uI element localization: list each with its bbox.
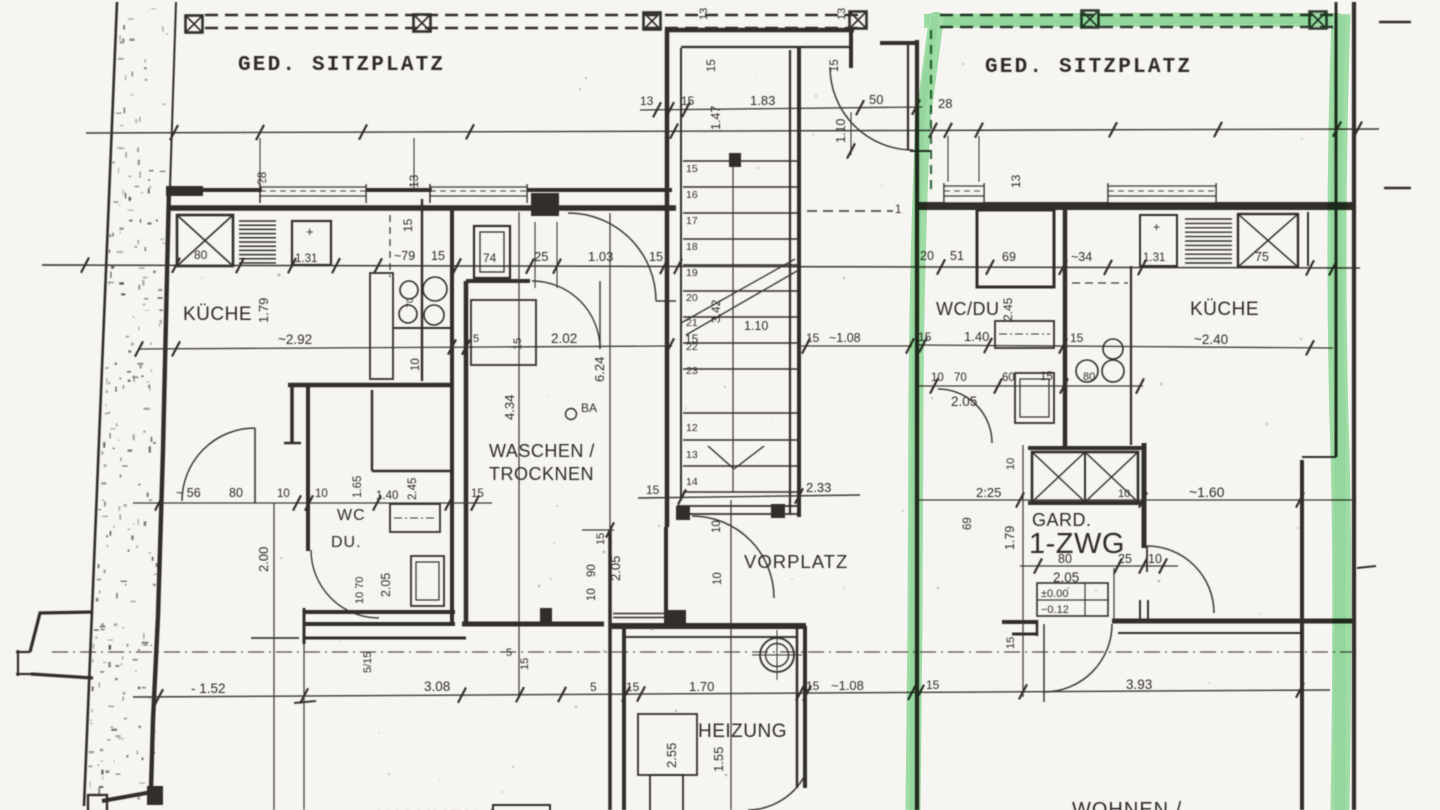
kitchen shaft crossed box (177, 215, 233, 266)
svg-text:3.93: 3.93 (1126, 677, 1152, 692)
pergola post 3 (644, 13, 661, 30)
wc-right door arc (938, 389, 992, 443)
entry door arc right apartment (830, 67, 913, 150)
svg-text:1.31: 1.31 (295, 253, 317, 265)
svg-text:13: 13 (686, 449, 698, 461)
wall end block left of wohnen door (1002, 620, 1038, 624)
stair shaft top wall inner (681, 46, 849, 48)
entry wall stub right of shaft (849, 30, 853, 68)
kitchen sink box with 1.31 (292, 221, 331, 265)
svg-text:15: 15 (649, 250, 663, 264)
gard top wall (1028, 446, 1143, 450)
svg-text:2.05: 2.05 (379, 573, 393, 597)
building west wall thick slanted (151, 188, 169, 789)
green highlight horizontal top right (924, 20, 1340, 21)
svg-text:17: 17 (686, 215, 698, 227)
kitchen-right counter edge (1130, 266, 1132, 445)
svg-text:15: 15 (595, 533, 607, 545)
svg-text:WC/DU: WC/DU (936, 299, 1000, 319)
vertical dim line x610 (609, 213, 611, 697)
gard right wall (1142, 443, 1147, 548)
svg-text:5: 5 (506, 647, 512, 659)
svg-text:14: 14 (686, 476, 698, 488)
vorplatz left wall (664, 527, 668, 618)
svg-text:~ 56: ~ 56 (176, 486, 201, 500)
pergola dashed line lower right (940, 26, 1333, 28)
vertical dim line x1023 (1022, 445, 1024, 697)
svg-text:15: 15 (512, 338, 524, 350)
svg-text:15: 15 (1040, 371, 1053, 383)
plumbing wall x452 (450, 208, 454, 626)
svg-text:GARD.: GARD. (1032, 510, 1092, 530)
left end y266 line stub (42, 264, 86, 266)
stair shaft right wall outer (797, 48, 801, 517)
svg-text:1.83: 1.83 (750, 93, 775, 108)
svg-text:13: 13 (407, 174, 421, 188)
pergola dashed line lower left (205, 27, 860, 29)
vertical dim line x304 cap (294, 701, 316, 703)
svg-text:1.47: 1.47 (709, 106, 723, 130)
stair shaft bottom double lines (677, 505, 801, 507)
svg-text:13: 13 (836, 8, 848, 20)
svg-text:18: 18 (686, 241, 698, 253)
pergola post 1 (186, 16, 203, 33)
kitchen counter column rect (370, 273, 393, 379)
dim line y347 right of stair (800, 345, 912, 347)
kitchen-right sink box (1140, 215, 1177, 266)
wall pillar black block (531, 193, 559, 216)
svg-text:15: 15 (1070, 331, 1084, 345)
stair direction arrow V (708, 446, 734, 469)
74 window duct box (474, 226, 510, 278)
wc-left west wall upper (290, 383, 294, 443)
ticks on y266 line (81, 258, 89, 273)
svg-text:1.55: 1.55 (711, 747, 726, 772)
wall below zwg door (1112, 619, 1356, 624)
stair shaft right wall inner (789, 50, 791, 515)
svg-text:5/15: 5/15 (362, 652, 374, 673)
svg-text:~1.08: ~1.08 (829, 331, 861, 345)
corner block at vorplatz south-east (664, 610, 686, 627)
svg-text:10: 10 (931, 372, 944, 384)
svg-text:15: 15 (926, 678, 940, 692)
svg-text:1.79: 1.79 (1003, 526, 1017, 550)
stair center line and top square (732, 155, 734, 492)
svg-text:2:25: 2:25 (976, 485, 1001, 500)
corridor double wall x610 x624 (608, 530, 612, 810)
left apartment top wall inner thick line (168, 205, 676, 211)
dim line y348 with 2.92 and 2.02 (138, 346, 672, 349)
svg-text:28: 28 (938, 96, 952, 111)
svg-text:19: 19 (686, 267, 698, 279)
svg-text:80: 80 (1058, 552, 1072, 566)
svg-text:2.05: 2.05 (951, 394, 977, 409)
right apartment window 2 (1108, 182, 1216, 202)
svg-text:15: 15 (1005, 637, 1017, 649)
pergola post 2 (414, 15, 431, 32)
svg-text:13: 13 (640, 94, 654, 108)
waschen door arc (532, 281, 600, 349)
step connector (1302, 456, 1336, 458)
svg-text:5: 5 (590, 680, 597, 694)
right margin mark middle (1384, 187, 1411, 190)
pergola post 4 (850, 12, 867, 29)
zwg door leaf and arc (1146, 546, 1148, 572)
window 1 left apartment (262, 183, 366, 203)
global counter dimension line y266 (42, 265, 1360, 268)
svg-text:2.45: 2.45 (1001, 297, 1015, 321)
kitchen grill hatch symbol (239, 221, 276, 263)
wc-right shower rect (977, 210, 1054, 287)
green highlight blob at x935 (927, 12, 945, 30)
svg-text:80: 80 (1083, 371, 1095, 383)
stair diagonal break lines (681, 259, 795, 323)
kitchen-right grill hatch (1185, 219, 1232, 263)
svg-text:10: 10 (315, 488, 328, 500)
svg-text:75: 75 (1255, 250, 1269, 264)
svg-text:25: 25 (1118, 552, 1132, 566)
building west wall upper thin segment (170, 2, 176, 188)
axis dash-dot line y651 (52, 651, 1360, 653)
right exterior wall inner upper (1335, 2, 1338, 457)
vertical dim line x274 with 2.00 (273, 503, 275, 810)
svg-text:KÜCHE: KÜCHE (1190, 299, 1259, 320)
stair shaft top wall outer (665, 28, 854, 33)
svg-text:10: 10 (1148, 552, 1162, 566)
svg-text:2.00: 2.00 (256, 547, 271, 572)
wc-right partition wall x1065 (1063, 210, 1068, 447)
wc-left door arc (311, 550, 379, 618)
dark green dashed vertical stub at x931 (930, 30, 932, 192)
svg-text:6.24: 6.24 (592, 357, 607, 382)
svg-text:1-ZWG: 1-ZWG (1029, 528, 1125, 560)
wohnen right east wall (1300, 460, 1304, 810)
small rect bottom left (493, 805, 550, 810)
entry recess west wall double (907, 42, 909, 150)
svg-text:WOHNEN /: WOHNEN / (1072, 799, 1182, 810)
kitchen-right dashed window line (1072, 282, 1128, 284)
kitchen partition wall x422 (421, 199, 423, 381)
gard crossed boxes (1032, 452, 1138, 502)
kitchen dashed projection vertical (389, 215, 391, 277)
svg-text:2.02: 2.02 (551, 331, 577, 346)
stove bottom line (393, 327, 452, 329)
stair treads lower flight (683, 413, 797, 492)
svg-text:3.08: 3.08 (424, 679, 450, 694)
svg-text:15: 15 (646, 483, 660, 497)
svg-text:10: 10 (1118, 488, 1130, 500)
elevation box (1037, 583, 1108, 616)
svg-text:13: 13 (1009, 174, 1023, 188)
wc-left washbasin (390, 504, 440, 532)
wc-right washbasin (995, 321, 1054, 348)
waschen table rectangle (471, 300, 536, 365)
wohnen-right door leaf and arc (1043, 624, 1045, 702)
svg-text:15: 15 (401, 218, 415, 232)
projection verticals for 25 dim (534, 222, 536, 288)
svg-text:90: 90 (586, 564, 598, 577)
window 2 left apartment (432, 183, 527, 203)
svg-text:1.79: 1.79 (256, 298, 271, 323)
dim line y500 right apartment (918, 499, 1356, 501)
kitchen-right burners (1103, 339, 1123, 359)
svg-text:- 1.52: - 1.52 (191, 681, 226, 696)
svg-text:GED. SITZPLATZ: GED. SITZPLATZ (238, 54, 445, 77)
svg-text:15: 15 (686, 163, 698, 175)
svg-text:70: 70 (954, 372, 967, 384)
x610 wall top tick and label (582, 529, 614, 531)
svg-text:15: 15 (806, 331, 820, 345)
stair bottom dim line 2.33 (638, 495, 860, 498)
svg-text:1.31: 1.31 (1143, 252, 1165, 264)
kitchen-right crossed box (1238, 214, 1298, 267)
right exterior wall outer (1352, 2, 1356, 810)
stair treads upper flight (683, 161, 797, 369)
svg-text:+: + (1153, 220, 1160, 234)
svg-text:10: 10 (410, 358, 422, 371)
BA circle and label (566, 409, 577, 420)
svg-text:2.33: 2.33 (806, 480, 831, 495)
svg-text:1.10: 1.10 (834, 119, 848, 143)
site boundary outer slanted line (84, 2, 117, 806)
heizung top wall (611, 623, 806, 629)
waschen top wall segment (466, 279, 530, 283)
right margin mark top (1379, 21, 1411, 24)
svg-text:HEIZUNG: HEIZUNG (698, 721, 787, 742)
stair tread numbers upper (686, 163, 698, 377)
svg-text:15: 15 (806, 679, 820, 693)
svg-text:~2.92: ~2.92 (278, 332, 312, 347)
wc-right dim line y345 (918, 345, 1333, 348)
wc-left shower partition (371, 390, 373, 471)
svg-text:60: 60 (1002, 372, 1015, 384)
svg-text:+: + (306, 224, 314, 239)
svg-text:10: 10 (586, 588, 598, 601)
svg-text:10: 10 (1005, 458, 1017, 470)
long dimension line y695 (133, 690, 1330, 697)
stove burner circles left kitchen (400, 281, 418, 299)
wc-left toilet (411, 556, 444, 606)
svg-text:VORPLATZ: VORPLATZ (744, 551, 848, 572)
svg-text:1.40: 1.40 (964, 329, 989, 344)
vertical dim line x731 (730, 500, 732, 810)
long dimension line y132 (86, 129, 1379, 133)
svg-text:~1.60: ~1.60 (1189, 484, 1225, 500)
outbuilding bottom-left annex (30, 612, 93, 652)
ticks on y132 dimension line (170, 125, 178, 140)
svg-text:~79: ~79 (394, 249, 415, 263)
stair shaft left wall inner (680, 48, 682, 500)
gard bottom wall (1028, 501, 1143, 505)
heizung door arc bottom (748, 773, 806, 810)
wc bottom double wall (305, 610, 455, 614)
gard dim line y566 (1020, 565, 1178, 567)
svg-text:1.70: 1.70 (689, 679, 714, 694)
entry recess top wall (880, 41, 919, 45)
svg-text:WC: WC (337, 507, 366, 524)
svg-text:12: 12 (686, 422, 698, 434)
svg-text:5: 5 (473, 333, 479, 345)
svg-text:GED. SITZPLATZ: GED. SITZPLATZ (985, 56, 1192, 79)
ticks on y695 line (155, 689, 163, 704)
svg-text:−0.12: −0.12 (1041, 604, 1069, 616)
heizung inner lines (626, 636, 797, 638)
svg-text:1: 1 (895, 204, 901, 216)
svg-text:23: 23 (686, 365, 698, 377)
vertical dim line x519 (518, 212, 520, 697)
svg-text:10: 10 (711, 520, 723, 533)
svg-text:15: 15 (681, 94, 695, 108)
entry door vertical dim line (850, 112, 852, 155)
svg-text:69: 69 (962, 517, 974, 530)
svg-text:69: 69 (1002, 250, 1016, 264)
svg-text:~1.08: ~1.08 (831, 678, 864, 693)
svg-text:±0.00: ±0.00 (1041, 588, 1068, 600)
right margin tick y568 (1357, 566, 1376, 568)
svg-text:~2.40: ~2.40 (1194, 332, 1228, 347)
svg-text:TROCKNEN: TROCKNEN (489, 464, 594, 484)
svg-text:13: 13 (698, 8, 710, 20)
wc dim line y503 (133, 502, 492, 504)
separation dashed line y211 with label 1 (807, 210, 893, 212)
stair tread numbers lower (686, 422, 698, 488)
svg-text:1.65: 1.65 (352, 476, 364, 498)
waschen west wall x466 (464, 281, 469, 626)
svg-text:51: 51 (950, 249, 964, 263)
svg-text:15: 15 (626, 680, 640, 694)
west wall top corner blob (166, 186, 203, 196)
pergola dashed line upper right (940, 14, 1333, 16)
site bottom corner block (147, 786, 163, 805)
kitchen entry door arc (568, 213, 656, 301)
svg-text:KÜCHE: KÜCHE (183, 304, 252, 325)
waschen bottom wall y624 (462, 622, 604, 627)
svg-text:20: 20 (686, 292, 698, 304)
kitchen-right counter top vertical (1307, 212, 1309, 266)
vorplatz door arc from stair (692, 516, 774, 598)
svg-text:80: 80 (194, 248, 208, 262)
small square at bottom edge (88, 795, 107, 810)
stair top dimension line y110 (640, 107, 922, 110)
svg-text:15: 15 (431, 249, 445, 263)
right apartment top wall thick (915, 202, 1355, 210)
wc-right dim line y386 (918, 385, 1143, 387)
wc-right toilet (1015, 373, 1054, 423)
svg-text:15: 15 (706, 59, 718, 72)
svg-text:~34: ~34 (1071, 250, 1092, 264)
svg-text:10: 10 (712, 572, 724, 585)
svg-text:70: 70 (405, 298, 415, 308)
pergola post 6 (1310, 12, 1327, 29)
svg-text:74: 74 (483, 251, 497, 265)
svg-text:15: 15 (519, 658, 531, 670)
svg-text:2.45: 2.45 (407, 478, 419, 500)
svg-text:25: 25 (534, 249, 548, 264)
left apartment top wall outer line (168, 188, 672, 192)
vorplatz door threshold thin lines (613, 613, 666, 615)
svg-text:4.34: 4.34 (502, 395, 517, 420)
svg-text:28: 28 (255, 171, 269, 185)
svg-text:3.42: 3.42 (709, 299, 723, 323)
heizung storage rect (638, 714, 697, 775)
svg-text:10: 10 (277, 488, 290, 500)
svg-text:2.55: 2.55 (664, 743, 679, 768)
scattered scan speckles (201, 63, 1303, 794)
svg-text:BA: BA (581, 401, 597, 415)
svg-text:WASCHEN /: WASCHEN / (489, 441, 595, 461)
pergola post 5 (1082, 11, 1099, 28)
site boundary speckle band texture (89, 8, 169, 799)
svg-text:10 70: 10 70 (354, 576, 366, 604)
svg-text:50: 50 (869, 92, 883, 107)
heizung boiler circle (760, 638, 794, 672)
vertical projection lines from y132 (259, 138, 261, 188)
svg-text:DU.: DU. (331, 534, 362, 551)
svg-text:80: 80 (229, 486, 243, 500)
right apartment window 1 (944, 182, 984, 202)
kitchen lower door arc (182, 428, 255, 501)
green highlight vertical right at x1340 (1337, 14, 1342, 810)
heizung right wall (796, 626, 799, 788)
green highlight vertical left at x916 (913, 14, 937, 810)
svg-text:16: 16 (686, 189, 698, 201)
wc-left west wall lower and door (306, 385, 310, 551)
stair shaft left wall outer (665, 29, 670, 527)
svg-text:1.10: 1.10 (744, 319, 768, 333)
pergola dashed line upper left (205, 14, 860, 16)
wc-left top wall (288, 383, 452, 388)
